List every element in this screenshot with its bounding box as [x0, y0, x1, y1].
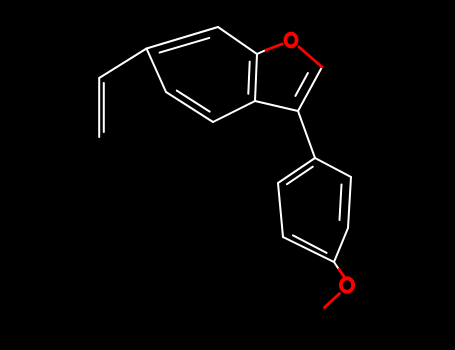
- wire C1'-C2': [315, 158, 351, 177]
- wire C5-C4: [166, 92, 213, 122]
- atom label O2 (methoxy oxygen): [341, 278, 353, 291]
- inner double bond C4'=C5': [293, 235, 327, 253]
- inner double bond C5=C4: [177, 91, 210, 112]
- inner double bond C2=C3: [295, 73, 308, 96]
- red bond O1-C2: [299, 47, 322, 67]
- inner double bond C2'=C3': [340, 185, 342, 221]
- white half of C4'-O2 bond: [334, 262, 339, 270]
- wire C7a-C7: [218, 27, 257, 54]
- furan: white half of C7a-O1 bond: [257, 50, 266, 54]
- bond C3-C1' to aryl: [298, 111, 315, 158]
- wire C5'-C6': [278, 183, 283, 237]
- inner double bond C7=C6: [160, 38, 210, 53]
- vinyl double bond partner line: [103, 83, 105, 132]
- wire C6-C5: [147, 49, 167, 93]
- wire C6'-C1': [278, 158, 315, 183]
- wire C3-C3a: [255, 101, 298, 111]
- red half of C7a-O1 bond: [266, 44, 282, 50]
- wire C4-C3a: [213, 101, 255, 122]
- red half of C4'-O2 bond: [339, 270, 344, 277]
- wire C2-C3: [298, 67, 322, 111]
- left substituent bond C6-Ca: [99, 49, 146, 79]
- wire C7-C6: [147, 27, 219, 49]
- wire C3a-C7a: [255, 54, 257, 101]
- atom label O1 (furan oxygen): [285, 34, 296, 47]
- red bond O2-CH3: [325, 294, 340, 308]
- wire C2'-C3': [348, 177, 351, 228]
- wire C3'-C4': [334, 228, 348, 262]
- inner double bond C3a=C7a: [248, 62, 249, 94]
- inner double bond C6'=C1': [287, 167, 313, 185]
- wire C4'-C5': [283, 237, 334, 262]
- vinyl double bond main line: [98, 78, 100, 137]
